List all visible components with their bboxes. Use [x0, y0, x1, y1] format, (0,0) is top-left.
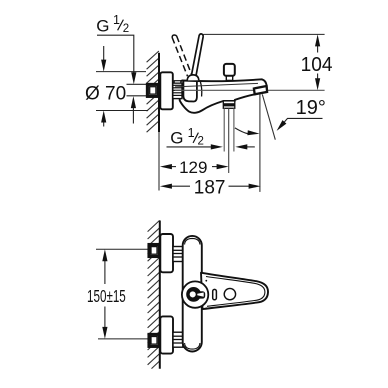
faucet body and spout (side view): [180, 79, 267, 113]
svg-text:G: G: [170, 128, 183, 147]
diverter knob: [226, 76, 232, 81]
angle arc: [235, 128, 250, 134]
paddle inner contour: [206, 277, 265, 307]
svg-text:104: 104: [301, 54, 333, 76]
indicator mark: [213, 289, 217, 299]
extension line from aerator: [259, 94, 261, 191]
svg-text:2: 2: [123, 23, 129, 35]
lever paddle (top view): [201, 273, 268, 309]
leader G1/2 top: [97, 35, 134, 74]
svg-text:Ø 70: Ø 70: [85, 84, 126, 105]
body bottom inner contour: [185, 343, 200, 349]
svg-text:1: 1: [113, 13, 120, 27]
dimension 150±15 extension lines: [96, 248, 149, 250]
wall escutcheon (side view): [160, 72, 173, 109]
upper connector: [173, 247, 183, 262]
upper escutcheon (top view): [160, 234, 173, 272]
paddle button circle: [224, 288, 235, 299]
svg-text:1: 1: [188, 126, 195, 140]
union nut (side view): [147, 84, 158, 96]
svg-text:187: 187: [194, 178, 226, 199]
lever handle (solid position): [191, 34, 204, 80]
GROHE logo: [186, 287, 201, 302]
body top inner contour: [185, 238, 200, 244]
lower connector: [173, 332, 183, 347]
lever base dome: [187, 75, 199, 81]
dimension 187: [171, 185, 191, 187]
extension line at spout outlet (104 lower / spout lower edge): [175, 89, 325, 91]
aerator (mousseur): [254, 86, 267, 94]
dimension 150±15: [104, 259, 106, 284]
faucet body (top view): [183, 236, 202, 352]
svg-text:2: 2: [198, 136, 204, 148]
cartridge housing: [183, 81, 197, 102]
dimension 104: [204, 33, 325, 35]
collar neck: [174, 81, 181, 83]
ribbed collar nut: [173, 83, 182, 99]
lever handle (dashed alternate position): [172, 36, 192, 76]
fitting centerline: [228, 108, 230, 173]
svg-text:G: G: [96, 16, 109, 35]
wall (top view): [148, 220, 160, 368]
wall (side view): [147, 51, 159, 132]
svg-text:129: 129: [179, 158, 207, 177]
lower union nut (top view): [149, 334, 159, 346]
shower outlet fitting G1/2: [223, 101, 235, 108]
extension lines from fitting: [223, 108, 225, 151]
svg-text:150±15: 150±15: [87, 286, 126, 306]
lower escutcheon (top view): [160, 316, 173, 353]
upper union nut (top view): [149, 245, 159, 257]
supply pipe G1/2: [127, 84, 148, 96]
svg-text:19°: 19°: [296, 97, 326, 119]
housing-spout boundary: [200, 81, 201, 96]
arrow pipe bottom: [132, 106, 134, 124]
dimension 129: [171, 166, 177, 168]
dimension Ø70 escutcheon: [96, 71, 146, 73]
paddle root dots: [205, 280, 207, 282]
diverter knob (top view): [182, 281, 208, 307]
spout interior line: [175, 83, 258, 87]
19 deg flow direction line: [262, 94, 275, 139]
